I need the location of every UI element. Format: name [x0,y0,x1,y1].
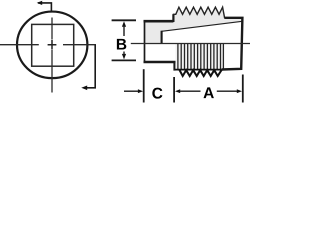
top leader elbow wire [38,3,51,11]
top thread crest zigzag [173,7,225,18]
root notch left edge [161,31,163,44]
bottom-right leader arrowhead [81,86,87,91]
dimension C: leader line and right-pointing arrow [124,90,139,92]
dimension B: top extension tick [112,19,136,21]
dimension C/A: right extension line [242,75,244,103]
bottom-right leader elbow wire [87,45,96,88]
head outline top edge [144,20,174,23]
bottom thread root line [174,69,222,71]
head step-down edge [173,62,175,71]
front view: square head [32,24,74,66]
bottom thread vee zigzag [180,70,222,76]
horizontal centerline (front view) [0,44,96,46]
dimension C/A: middle extension line [173,77,175,103]
dimension A: left-pointing arrow [175,89,180,93]
dimension B: upper arrow [122,21,126,27]
head step-up edge [172,14,174,22]
head outline left edge [144,20,146,63]
dimension C/A: left extension line [143,69,145,102]
dimension A: label [203,87,213,98]
dimension C: label [152,88,162,99]
head bottom edge [144,61,176,64]
thread flank lines [178,44,224,70]
dimension A: right-pointing arrow [217,90,238,92]
dimension B: lower arrow [122,54,126,60]
thread root taper line [162,21,243,31]
center cross mark [48,40,57,50]
front view: thread circle [17,12,87,79]
thread flank background band [176,44,224,70]
small end: top flat, end face, bottom flat [222,18,243,70]
dimension B: label [117,39,126,50]
dimension B: bottom extension tick [112,59,136,61]
vertical centerline (front view) [51,18,53,93]
side view: gray body fill (above axis, minus root notch) [144,7,242,44]
side view axis centerline [131,43,250,45]
top leader arrowhead [37,1,43,5]
